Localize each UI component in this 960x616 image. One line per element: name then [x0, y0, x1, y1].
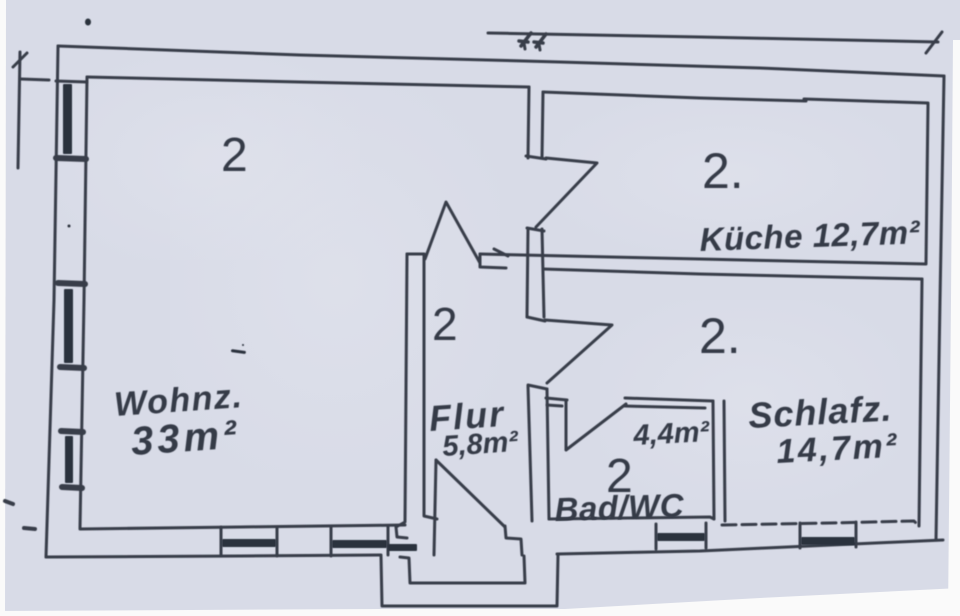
window WB4 glazing bar: [801, 537, 855, 545]
window W2 glazing bar (black): [64, 289, 73, 363]
window WB1 glazing bar: [222, 539, 276, 547]
window WB3 posts: [655, 524, 658, 549]
window WB2 glazing bar: [332, 540, 387, 548]
wire: wohnz/flur wall right line middle: [542, 229, 544, 317]
svg-text:Bad/WC: Bad/WC: [554, 486, 685, 528]
dimension left arrow slash: [13, 53, 27, 67]
wire: right outer wall: [936, 76, 944, 540]
wire: schlafz door lower cap: [528, 385, 547, 389]
wire: top outer wall: [58, 46, 944, 76]
window WB2 posts: [330, 527, 333, 556]
wire: kitchen bottom wall bottom line: [543, 269, 922, 279]
vestibule outer U: [381, 555, 558, 606]
wire: schlafzimmer inner right wall: [919, 279, 922, 526]
wire: schlafz door top cap: [527, 317, 545, 321]
wire: bad/wc top-left step upper: [546, 398, 567, 400]
ink speck top left: [85, 19, 91, 26]
window W1 glazing bar (black): [63, 84, 72, 154]
wire: flur left wall outer line: [396, 254, 407, 527]
svg-text:2.: 2.: [699, 308, 741, 364]
wire: left outer wall: [46, 46, 58, 557]
door leaf: kueche door: [536, 158, 597, 227]
wire: wohnz/kueche wall left line upper: [528, 87, 529, 158]
white scan margin right: [948, 40, 960, 616]
svg-text:14,7m²: 14,7m²: [775, 427, 900, 471]
window W2 top cap thick: [58, 283, 85, 284]
wire: kitchen inner top wall right part: [804, 99, 928, 103]
wire: flur door right jamb: [480, 254, 506, 268]
wire: schlafzimmer bottom inner line dashed: [722, 521, 919, 526]
wire: bad/wc right wall right line: [724, 401, 725, 521]
wire: bad/wc bottom line: [549, 517, 714, 519]
door leaf: schlafzimmer door: [545, 320, 612, 383]
window W3 glazing bar (black): [65, 436, 73, 483]
dimension left tick to wall: [21, 79, 49, 80]
door leaf: entrance door swing chord: [436, 460, 505, 527]
white scan margin bottom: [0, 588, 960, 616]
dimension arrow chevron 2: [536, 34, 546, 47]
wire: bottom inner wall step near flur: [396, 527, 407, 538]
vestibule inner U: [400, 556, 525, 583]
ink speck in wall cavity: [68, 225, 71, 228]
dimension line top: [488, 33, 938, 42]
svg-text:Küche 12,7m²: Küche 12,7m²: [699, 213, 921, 258]
svg-text:4,4m²: 4,4m²: [632, 416, 712, 452]
door leaf: entrance door vertical: [434, 460, 436, 555]
wire: kueche door bottom cap: [527, 228, 544, 231]
dimension arrow right slash: [926, 32, 942, 53]
window W3 bottom cap thick: [62, 487, 82, 488]
wire: bad/wc top wall lower line: [625, 406, 705, 408]
window WB4 posts: [799, 523, 802, 548]
wire: bad/wc top wall upper line: [625, 398, 713, 401]
wire: flur/bad wall right line lower: [547, 389, 549, 519]
door leaf: bad/wc door: [566, 404, 626, 450]
ink speck above wohnz text: [242, 344, 244, 346]
wire: flur left wall top cap: [407, 253, 424, 256]
wire: entrance right jamb: [505, 526, 522, 555]
wire: bad/wc top-left step lower: [547, 405, 562, 406]
wire: kueche door top cap: [526, 156, 546, 159]
wire: left inner wall: [80, 77, 87, 528]
dimension arrow chevron 1: [521, 33, 531, 46]
wire: bad door left jamb: [565, 400, 568, 449]
tick mark lower left: [24, 528, 35, 529]
wire: wohnz/kueche wall right line upper: [542, 92, 543, 158]
svg-text:2.: 2.: [702, 143, 744, 199]
door leaf: wohnzimmer-flur door: [425, 202, 480, 263]
wire: kitchen inner right wall: [926, 104, 928, 263]
wire: pen tail at wall start: [494, 249, 508, 256]
wire: kitchen bottom wall top line: [480, 254, 926, 264]
wire: bad/wc right wall left line: [713, 401, 714, 519]
svg-text:2: 2: [221, 129, 248, 182]
window W1 bottom cap thick: [56, 158, 86, 159]
tick mark lower left small: [5, 501, 13, 504]
wire: top inner wall (Wohnzimmer side): [87, 77, 529, 87]
wire: bottom inner wall left run: [80, 525, 405, 529]
svg-text:5,8m²: 5,8m²: [441, 426, 520, 463]
window W2 bottom cap thick: [60, 367, 84, 368]
window WB1 posts (bottom wall): [220, 527, 223, 556]
window W1 left wall top cap: [56, 81, 87, 82]
wire: bottom outer wall right run: [557, 540, 943, 554]
window WB3 glazing bar: [657, 533, 705, 541]
svg-text:33m²: 33m²: [130, 412, 242, 464]
wire: flur left wall inner line: [424, 254, 437, 519]
wire: bottom outer wall left run: [46, 555, 381, 557]
dimension line left vertical: [18, 52, 20, 168]
thick outer wall segment left of vestibule: [388, 544, 417, 551]
svg-text:2: 2: [432, 298, 458, 350]
ink speck wohnzimmer dash: [231, 349, 246, 354]
window W3 top cap thick: [61, 431, 83, 432]
wire: wohnz/flur wall left line middle: [527, 229, 528, 317]
wire: kitchen inner top wall: [543, 92, 806, 101]
wire: flur/bad wall left line lower: [528, 386, 532, 521]
white scan margin left: [0, 0, 6, 616]
